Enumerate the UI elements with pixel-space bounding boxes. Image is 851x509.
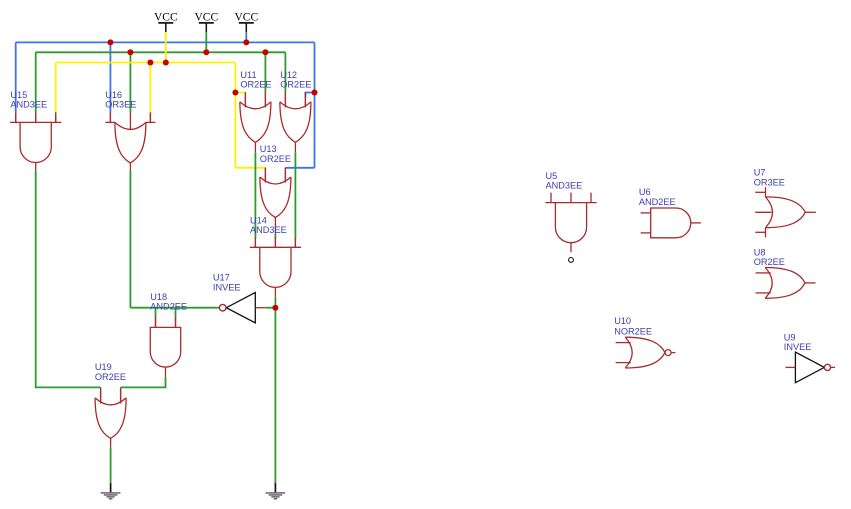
pin U11 output stub [254, 142, 256, 152]
svg-text:INVEE: INVEE [784, 342, 812, 352]
inverter U9 label [784, 333, 812, 353]
junction dot blue U12.B [312, 90, 318, 96]
pin U16 input A stub [109, 112, 111, 122]
svg-text:AND2EE: AND2EE [150, 302, 187, 312]
or-gate U16 [105, 112, 155, 162]
inverter U17 label [213, 273, 241, 293]
junction dot yellow U16.C [147, 60, 153, 66]
wire green to U12 input A [284, 52, 286, 92]
op U15 label [10, 90, 47, 110]
wire green U15 output to U19 [36, 171, 101, 388]
svg-text:U10: U10 [614, 316, 631, 326]
wire green horizontal bus [36, 51, 286, 53]
unconnected-pin circle U5 output [569, 258, 574, 263]
or-gate U12 label [280, 70, 311, 90]
wire yellow VCC1 stub [165, 32, 167, 62]
or-gate U16 label [105, 90, 136, 110]
pin U13 output stub [274, 218, 276, 234]
power VCC 1 [154, 12, 178, 33]
svg-text:U14: U14 [250, 215, 267, 225]
svg-text:U17: U17 [213, 273, 230, 283]
and-gate U14 [250, 237, 301, 287]
pin U15 input B stub [35, 112, 37, 122]
junction dot green U11.B [262, 49, 268, 55]
wire blue to U16 input A [109, 42, 111, 112]
pin U15 output stub [35, 163, 37, 171]
or-gate U19 [95, 388, 126, 438]
wire green U14 output vertical [274, 297, 276, 483]
power VCC 3 [234, 12, 258, 33]
inverter U17 [219, 293, 255, 323]
wire blue jog to U12 input B [305, 93, 314, 98]
pin U19 output stub [110, 438, 112, 447]
svg-text:OR3EE: OR3EE [105, 100, 136, 110]
wire green to U15 input B [35, 52, 37, 112]
pin U18 input A stub [155, 318, 157, 328]
wire yellow to U16 input C [149, 63, 151, 113]
pin U14 input A stub [254, 238, 256, 247]
svg-text:OR2EE: OR2EE [95, 372, 126, 382]
wire green to U11 input B [264, 52, 266, 92]
pin U16 output stub [129, 163, 131, 171]
or-gate U7 [755, 187, 816, 237]
junction dot yellow U11.A [232, 90, 238, 96]
pin U13 input A stub [264, 168, 266, 183]
pin U15 input C stub [55, 112, 57, 122]
svg-text:U11: U11 [240, 70, 256, 80]
wire green U16 output vertical [129, 171, 131, 308]
wire green U19 output to ground [110, 448, 112, 483]
svg-text:U7: U7 [754, 167, 766, 177]
junction dot blue U16.A [107, 39, 113, 45]
junction dot green VCC2 [203, 49, 209, 55]
or-gate U8 label [754, 247, 785, 267]
wire green U17 output to U16 net [130, 307, 219, 309]
svg-text:AND3EE: AND3EE [546, 181, 583, 191]
inverter U9 [786, 352, 836, 383]
svg-text:AND3EE: AND3EE [10, 100, 47, 110]
nor-gate U10 [616, 337, 676, 368]
pin U15 input A stub [15, 112, 17, 122]
pin U17 input stub [255, 307, 265, 309]
svg-text:U8: U8 [754, 247, 766, 257]
wire yellow horizontal bus [56, 62, 236, 64]
or-gate U19 label [95, 362, 126, 382]
and-gate U14 label [250, 215, 287, 235]
pin U11 input A stub [244, 92, 246, 107]
svg-text:NOR2EE: NOR2EE [614, 326, 652, 336]
power VCC 2 [194, 12, 218, 33]
nor-gate U10 label [614, 316, 652, 336]
and-gate U5 [545, 193, 596, 243]
pin U11 input B stub [264, 92, 266, 107]
and-gate U18 [150, 317, 180, 367]
pin U5 output stub [570, 243, 572, 252]
junction dot green U17 input [272, 305, 278, 311]
svg-text:U15: U15 [10, 90, 27, 100]
pin U13 input B stub [284, 168, 286, 183]
pin U12 output stub [294, 142, 296, 152]
pin U18 output stub [165, 368, 167, 378]
wire green U18 output to U19 [121, 377, 166, 387]
pin U19 input A stub [100, 387, 102, 403]
svg-text:AND3EE: AND3EE [250, 225, 287, 235]
svg-text:U6: U6 [639, 187, 651, 197]
or-gate U11 [240, 92, 271, 142]
svg-text:U13: U13 [260, 144, 277, 154]
wire green U18 input A tap [155, 308, 157, 318]
svg-text:OR2EE: OR2EE [280, 80, 311, 90]
wire green U18 input B tap [175, 308, 177, 318]
wire green U11 output to U14 [254, 152, 256, 238]
junction dot yellow VCC1 [163, 60, 169, 66]
wire green VCC2 stub [205, 32, 207, 52]
pin U16 input C stub [149, 112, 151, 122]
wire blue right vertical [314, 42, 316, 167]
svg-text:U12: U12 [280, 70, 297, 80]
svg-text:OR2EE: OR2EE [754, 257, 785, 267]
svg-text:U19: U19 [95, 362, 112, 372]
svg-text:VCC: VCC [234, 12, 258, 24]
wire green to U16 input B [129, 52, 131, 112]
or-gate U11 label [240, 70, 271, 90]
wire blue VCC3 stub [245, 32, 247, 42]
wire yellow to U15 input C [55, 63, 57, 113]
svg-text:OR3EE: OR3EE [754, 177, 785, 187]
pin U18 input B stub [175, 318, 177, 328]
wire blue to U15 input A [15, 42, 17, 112]
or-gate U13 label [260, 144, 291, 164]
svg-text:AND2EE: AND2EE [639, 197, 676, 207]
wire yellow to U13 input A [235, 167, 265, 169]
junction dot green U16.B [127, 49, 133, 55]
svg-text:U18: U18 [150, 292, 167, 302]
ground 2 [266, 483, 286, 499]
or-gate U12 [280, 92, 311, 142]
or-gate U13 [260, 168, 291, 218]
wire green U12 output to U14 [294, 152, 296, 238]
wire blue to U13 input B [285, 167, 314, 169]
svg-text:OR2EE: OR2EE [240, 80, 271, 90]
or-gate U7 label [754, 167, 785, 187]
pin U14 input C stub [294, 238, 296, 247]
pin U14 output stub [274, 287, 276, 297]
wire yellow jog to U11 input A [235, 92, 245, 94]
wire blue horizontal bus [16, 41, 315, 43]
and-gate U6 [641, 208, 701, 238]
pin U12 input A stub [284, 92, 286, 107]
wire green U17 input tap [266, 307, 276, 309]
and-gate U18 label [150, 292, 187, 312]
svg-text:U5: U5 [546, 171, 558, 181]
and-gate U15 [10, 112, 61, 162]
ground 1 [101, 483, 121, 499]
svg-text:VCC: VCC [194, 12, 218, 24]
and-gate U5 label [546, 171, 583, 191]
junction dot blue VCC3 [243, 39, 249, 45]
and-gate U6 label [639, 187, 676, 207]
svg-text:U16: U16 [105, 90, 122, 100]
svg-text:VCC: VCC [154, 12, 178, 24]
wire green U13 output short [274, 234, 276, 239]
pin U14 input B stub [274, 239, 276, 248]
wire yellow right vertical [234, 63, 236, 168]
pin U19 input B stub [120, 387, 122, 403]
svg-text:U9: U9 [784, 333, 796, 343]
or-gate U8 [756, 268, 816, 299]
pin U12 input B stub [304, 97, 306, 107]
svg-text:INVEE: INVEE [213, 282, 241, 292]
svg-text:OR2EE: OR2EE [260, 154, 291, 164]
